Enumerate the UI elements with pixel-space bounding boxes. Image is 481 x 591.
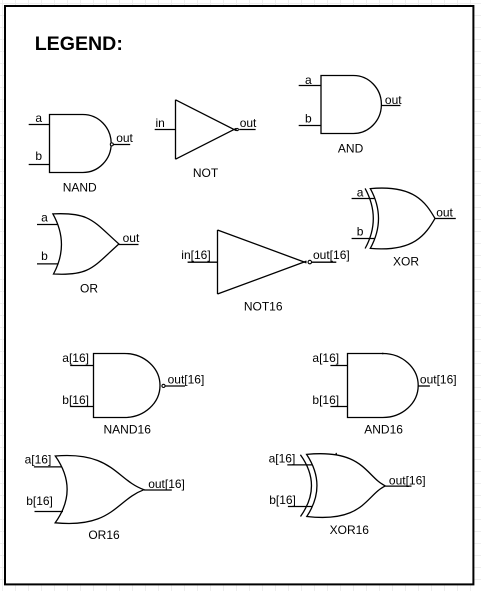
svg-text:OR: OR: [80, 281, 98, 295]
gate NOT16: [188, 230, 337, 294]
svg-text:b[16]: b[16]: [312, 393, 339, 407]
wire a input XOR: [352, 198, 375, 200]
gate body NOT triangle: [176, 100, 237, 159]
svg-text:out: out: [240, 116, 257, 130]
wire a input NAND16: [70, 365, 93, 367]
bubble NOT output: [236, 128, 238, 130]
gate body OR16: [55, 455, 144, 523]
bubble NAND output: [110, 143, 113, 146]
svg-text:a: a: [357, 186, 364, 200]
wire b input OR16: [35, 511, 64, 513]
gate body NAND: [50, 115, 112, 173]
wire out OR: [119, 244, 139, 246]
xor extra input arc XOR16: [300, 455, 311, 517]
svg-text:b[16]: b[16]: [26, 494, 53, 508]
gate NAND16: [70, 354, 185, 418]
svg-text:XOR: XOR: [393, 254, 419, 268]
gate body AND: [321, 76, 381, 134]
svg-text:b[16]: b[16]: [269, 493, 296, 507]
wire out NAND: [113, 144, 130, 146]
svg-text:out: out: [436, 205, 453, 219]
svg-text:OR16: OR16: [88, 528, 120, 542]
wire in NOT16: [188, 261, 218, 263]
svg-text:b: b: [35, 149, 42, 163]
gate body XOR16: [307, 454, 386, 518]
wire in NOT: [155, 129, 176, 131]
wire b input XOR: [352, 238, 375, 240]
svg-text:NOT16: NOT16: [244, 300, 283, 314]
wire b input OR: [37, 263, 58, 265]
seam nick XOR16 top: [335, 453, 337, 455]
wire out OR16: [144, 489, 172, 491]
gate XOR: [352, 188, 456, 249]
svg-text:a[16]: a[16]: [312, 351, 339, 365]
gate OR16: [34, 455, 172, 523]
svg-text:a[16]: a[16]: [25, 452, 52, 466]
svg-text:out[16]: out[16]: [313, 248, 350, 262]
svg-text:in: in: [156, 116, 165, 130]
svg-text:a[16]: a[16]: [269, 452, 296, 466]
wire a input OR16: [34, 466, 62, 468]
wire out AND: [381, 105, 400, 107]
svg-text:out: out: [385, 93, 402, 107]
svg-text:LEGEND:: LEGEND:: [35, 33, 123, 55]
gate OR: [37, 214, 139, 275]
svg-text:AND: AND: [338, 142, 364, 156]
wire out AND16: [418, 385, 430, 387]
wire out NOT: [239, 129, 255, 131]
title LEGEND:: [35, 33, 123, 55]
gate NOT: [155, 100, 256, 159]
gate body AND16: [348, 354, 419, 418]
svg-text:NAND: NAND: [63, 180, 97, 194]
wire b input XOR16: [288, 506, 313, 508]
svg-text:a: a: [35, 111, 42, 125]
gate body NAND16: [94, 354, 160, 418]
seam nick AND16 top: [382, 353, 384, 355]
gate body XOR: [370, 188, 435, 249]
wire a input XOR16: [287, 464, 312, 466]
svg-text:b[16]: b[16]: [62, 393, 89, 407]
wire out XOR16: [385, 485, 411, 487]
gate XOR16: [287, 453, 411, 518]
gate NAND: [29, 115, 131, 173]
wire a input AND16: [330, 365, 347, 367]
svg-text:NOT: NOT: [193, 166, 219, 180]
svg-text:b: b: [41, 249, 48, 263]
gate AND16: [330, 353, 430, 418]
svg-text:out[16]: out[16]: [148, 477, 185, 491]
bubble NOT16 output: [308, 260, 312, 264]
bubble NAND16 output: [162, 384, 165, 387]
gate body NOT16 triangle: [218, 230, 307, 294]
wire b input AND: [299, 125, 321, 127]
wire out XOR: [435, 218, 456, 220]
wire b input AND16: [330, 406, 347, 408]
svg-text:in[16]: in[16]: [181, 248, 210, 262]
wire b input NAND16: [70, 406, 93, 408]
svg-text:XOR16: XOR16: [330, 523, 370, 537]
svg-text:b: b: [357, 225, 364, 239]
gate AND: [299, 76, 401, 134]
svg-text:out[16]: out[16]: [389, 473, 426, 487]
wire out NAND16: [165, 385, 185, 387]
svg-text:a: a: [41, 211, 48, 225]
svg-text:b: b: [305, 112, 312, 126]
svg-text:a[16]: a[16]: [62, 351, 89, 365]
svg-text:AND16: AND16: [364, 423, 403, 437]
svg-text:out: out: [123, 231, 140, 245]
wire out NOT16: [312, 261, 336, 263]
gate body OR: [53, 214, 119, 275]
svg-text:NAND16: NAND16: [104, 423, 152, 437]
wire a input NAND: [29, 124, 50, 126]
xor extra input arc: [365, 188, 373, 248]
wire a input OR: [37, 224, 58, 226]
wire a input AND: [299, 85, 321, 87]
svg-text:out[16]: out[16]: [420, 372, 457, 386]
svg-text:out[16]: out[16]: [168, 372, 205, 386]
wire b input NAND: [29, 164, 50, 166]
svg-text:a: a: [305, 73, 312, 87]
svg-text:out: out: [116, 131, 133, 145]
